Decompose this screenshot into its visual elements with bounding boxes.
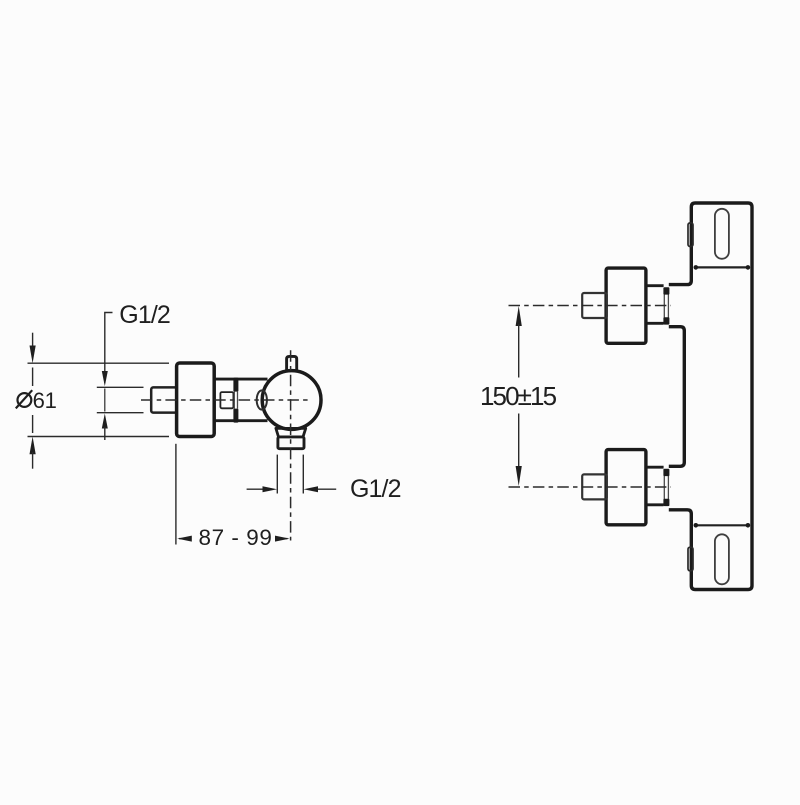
svg-text:150±15: 150±15	[480, 381, 557, 411]
outlet nipple	[278, 437, 304, 449]
svg-text:G1/2: G1/2	[350, 475, 401, 503]
top tab	[287, 356, 297, 370]
outlet dim arrows	[247, 488, 265, 490]
dia61 dimension line lower	[30, 437, 36, 455]
dia61 dimension line inner segments	[32, 368, 34, 434]
top centerline	[509, 305, 672, 307]
dia61 dimension line upper	[32, 333, 34, 349]
bottom clip	[688, 547, 693, 571]
cartridge cap ellipse	[257, 390, 267, 409]
bottom centerline	[509, 486, 672, 488]
bottom plate separation line	[694, 524, 749, 526]
bottom slot	[715, 534, 729, 584]
dia61 lower extension line	[28, 436, 170, 438]
dia61 upper extension line	[28, 362, 170, 364]
150 dimension lower arrow	[518, 414, 520, 468]
top knob mid piece	[646, 286, 664, 324]
top plate separation line	[694, 266, 749, 268]
bottom knob neck blobs	[663, 469, 669, 476]
wall flange	[177, 363, 215, 437]
neck seal blobs	[233, 378, 238, 392]
trunk silhouette	[669, 203, 752, 590]
stub lower extension line	[97, 412, 144, 414]
dia61 label	[16, 388, 57, 413]
nut square	[220, 392, 233, 408]
top knob cylinder	[606, 268, 646, 343]
150 dimension upper arrow	[516, 306, 522, 326]
trunk recessed left edge	[669, 327, 685, 467]
stub upper extension line	[97, 386, 144, 388]
outlet right extension line	[302, 455, 304, 494]
svg-text:61: 61	[33, 388, 57, 413]
svg-text:87 - 99: 87 - 99	[199, 525, 273, 550]
bottom knob mid piece	[646, 467, 664, 505]
bottom knob cylinder	[606, 450, 646, 525]
87-99 extension line	[175, 444, 177, 545]
G1/2 top leader	[105, 313, 113, 384]
top knob neck blobs	[663, 287, 669, 294]
inlet stub	[151, 387, 178, 412]
bottom knob neck lines	[664, 476, 668, 500]
vertical centerline	[290, 350, 292, 540]
top slot	[715, 209, 729, 259]
outlet collar	[276, 428, 306, 437]
knob circle	[262, 371, 321, 430]
top knob stem	[582, 293, 607, 318]
svg-text:G1/2: G1/2	[119, 301, 170, 329]
top knob neck lines	[664, 294, 668, 318]
body block edges	[215, 379, 268, 421]
neck thin lines	[234, 392, 237, 409]
top clip	[688, 223, 693, 247]
outlet left extension line	[276, 455, 278, 494]
horizontal centerline	[141, 399, 310, 401]
87-99 dimension line right arrow	[276, 538, 288, 540]
87-99 dimension line left arrow	[179, 538, 192, 540]
bottom knob stem	[582, 474, 607, 499]
